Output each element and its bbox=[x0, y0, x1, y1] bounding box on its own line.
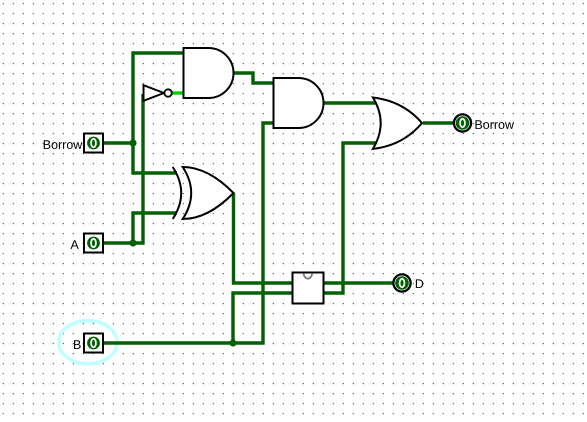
junction dot at Borrow trunk bbox=[129, 139, 136, 146]
and gate U3 bbox=[274, 78, 324, 128]
label Borrow (input) bbox=[44, 140, 83, 149]
junction dot at A row bbox=[129, 239, 136, 246]
wire trunk: AND1 input, down to XOR input 1 bbox=[133, 53, 184, 173]
xor gate U4 bbox=[173, 167, 234, 219]
subcircuit box U6 bbox=[293, 273, 324, 304]
wire AND1 output to AND2 input 1 bbox=[234, 73, 275, 83]
and gate U2 bbox=[184, 48, 234, 98]
wire subcircuit output 1 to D pin bbox=[324, 281, 394, 284]
junction dot at B row bbox=[229, 339, 236, 346]
label B bbox=[74, 340, 81, 349]
input pin A bbox=[84, 234, 103, 253]
wire B pin to AND2 input 2 bbox=[104, 123, 274, 343]
wire OR output to Borrow output pin bbox=[423, 121, 454, 124]
wire B junction up to subcircuit input 2 bbox=[233, 293, 293, 343]
halo highlight around input B bbox=[59, 321, 117, 364]
wire subcircuit output 2 up to OR input 2 bbox=[324, 143, 377, 293]
input pin Borrow bbox=[84, 134, 103, 153]
input pin B bbox=[84, 334, 103, 353]
label A bbox=[70, 240, 78, 249]
wire AND2 output to OR input 1 bbox=[324, 101, 377, 104]
output pin D bbox=[393, 274, 410, 291]
wire NOT output stub (value 1) bbox=[172, 91, 185, 94]
wire XOR output down to subcircuit input 1 bbox=[234, 193, 294, 283]
not gate U1 bbox=[144, 85, 172, 101]
label D bbox=[416, 279, 423, 288]
or gate U5 bbox=[373, 98, 422, 149]
wire Borrow pin to junction bbox=[103, 141, 133, 144]
label Borrow (output) bbox=[475, 120, 514, 129]
wire A junction up to XOR input 2 bbox=[133, 213, 177, 243]
wire A pin right and up to NOT input bbox=[103, 94, 143, 243]
output pin Borrow bbox=[454, 114, 471, 131]
